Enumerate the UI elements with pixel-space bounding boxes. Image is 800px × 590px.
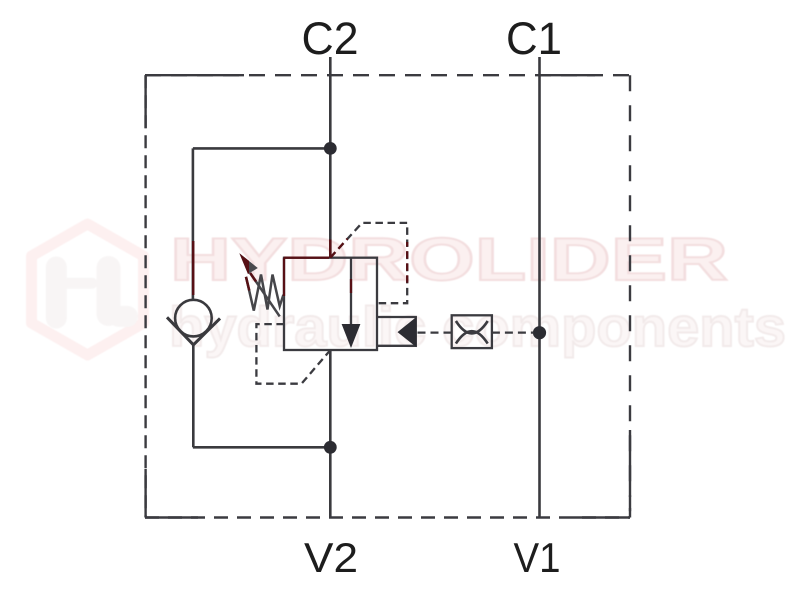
svg-text:HYDROLIDER: HYDROLIDER xyxy=(170,226,728,293)
svg-text:C2: C2 xyxy=(302,13,359,64)
svg-text:V2: V2 xyxy=(304,534,358,581)
svg-text:V1: V1 xyxy=(514,534,561,581)
svg-text:C1: C1 xyxy=(506,13,562,64)
